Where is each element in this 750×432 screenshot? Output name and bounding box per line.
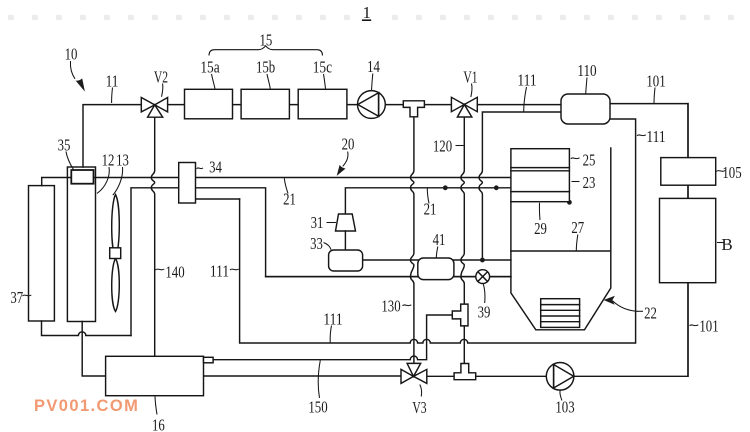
condenser 110 — [561, 94, 610, 124]
svg-text:15: 15 — [260, 31, 273, 50]
valve V3 — [401, 363, 427, 383]
evaporator stack 25/23 — [511, 149, 570, 202]
label 15a leader — [212, 74, 216, 89]
label 22 arrow — [613, 301, 638, 312]
ptc 31 trapezoid — [336, 214, 356, 231]
wire bottom pipe V3 to T2 — [427, 375, 454, 377]
label 111 top leader — [524, 87, 527, 112]
T fitting top — [403, 101, 424, 117]
node junction dot on heater supply — [480, 258, 485, 263]
heater core grille — [541, 299, 580, 328]
svg-text:111: 111 — [646, 127, 665, 146]
wire bottom pipe — [82, 322, 401, 377]
label 111 left tilde — [230, 269, 239, 270]
svg-text:110: 110 — [577, 61, 596, 80]
svg-text:120: 120 — [433, 137, 452, 156]
svg-text:130: 130 — [381, 297, 400, 316]
svg-text:10: 10 — [65, 45, 78, 64]
valve V2 — [141, 98, 167, 118]
wire pipe 33 to housing — [363, 259, 511, 261]
radiator 12 — [67, 167, 95, 322]
svg-text:33: 33 — [310, 234, 323, 253]
label 10 arrow — [70, 61, 75, 79]
heat exchanger 37 — [29, 186, 55, 321]
svg-text:103: 103 — [555, 398, 574, 417]
svg-text:20: 20 — [342, 135, 355, 154]
label 23 dash — [572, 181, 580, 183]
svg-text:34: 34 — [209, 158, 222, 177]
label 15c leader — [324, 74, 326, 89]
svg-text:27: 27 — [571, 218, 584, 237]
svg-text:15c: 15c — [313, 58, 333, 77]
svg-text:37: 37 — [10, 288, 23, 307]
label 27 leader — [576, 235, 578, 251]
svg-text:41: 41 — [433, 230, 446, 249]
label 111 right tilde — [637, 135, 646, 136]
wire bottom pipe pump 103 to 101 riser — [574, 104, 688, 377]
label 15 brace — [209, 46, 323, 56]
wire pipe lower left from fan line — [131, 188, 511, 336]
svg-text:21: 21 — [424, 200, 437, 219]
wire B to bottom pipe — [687, 283, 689, 377]
wire box34 port3 stub — [196, 198, 240, 200]
label 41 leader — [436, 247, 438, 258]
label 1 leader underline — [362, 19, 371, 21]
wire pipe 39 heater line — [266, 276, 511, 278]
label 11 leader — [111, 88, 114, 104]
label 140 tilde — [156, 269, 165, 270]
label 13 leader — [113, 167, 123, 195]
svg-text:29: 29 — [534, 219, 547, 238]
svg-text:39: 39 — [478, 303, 491, 322]
svg-text:31: 31 — [311, 213, 324, 232]
svg-text:15a: 15a — [200, 58, 220, 77]
label 12 leader — [97, 167, 109, 193]
svg-text:1: 1 — [363, 3, 372, 22]
hvac housing 22 — [511, 148, 611, 330]
svg-text:21: 21 — [283, 190, 296, 209]
wire pipe lower right segment to stack — [345, 188, 511, 214]
battery box B — [660, 198, 716, 282]
box 105 — [661, 158, 716, 186]
fan 13 blade upper — [112, 195, 120, 258]
label B dash — [717, 242, 724, 244]
label 39 leader — [483, 284, 485, 303]
label 31 dash — [327, 222, 337, 224]
pump 14 — [358, 91, 386, 119]
svg-text:150: 150 — [308, 397, 327, 416]
wire top pipe V2 to V1 — [168, 104, 452, 106]
label 29 leader — [538, 203, 541, 220]
svg-text:12: 12 — [102, 151, 115, 170]
label 37 tilde — [23, 295, 32, 296]
svg-text:111: 111 — [517, 71, 536, 90]
label 101 top leader — [654, 88, 655, 104]
chiller box 16 — [106, 356, 204, 395]
heater box 15b — [241, 89, 289, 119]
svg-text:23: 23 — [583, 173, 596, 192]
label 14 leader — [372, 74, 373, 91]
svg-text:111: 111 — [210, 262, 229, 281]
housing partition 27 — [511, 250, 611, 252]
label 21 upper leader — [284, 178, 288, 193]
wire 31 to 33 — [344, 231, 346, 250]
label 120 dash — [456, 145, 464, 147]
svg-text:16: 16 — [152, 416, 165, 432]
svg-text:11: 11 — [106, 72, 119, 91]
label 25 tilde — [571, 158, 580, 159]
label V1 leader — [471, 84, 472, 98]
svg-text:B: B — [721, 235, 732, 254]
node junction dot on lower pipe left — [443, 185, 448, 190]
svg-text:V2: V2 — [154, 68, 168, 87]
node junction dot on lower pipe right — [494, 185, 499, 190]
wire box34 port3 loop 111 — [240, 119, 636, 343]
pump 103 — [546, 363, 574, 391]
svg-text:101: 101 — [699, 317, 718, 336]
label 20 arrow — [343, 152, 348, 167]
T fitting bottom — [454, 364, 476, 380]
wire bottom pipe T2 to pump 103 — [476, 375, 547, 377]
label 35 leader — [66, 152, 74, 170]
wire radiator outlet manifold — [42, 321, 132, 336]
node junction dot at stack corner — [567, 200, 572, 205]
svg-text:111: 111 — [323, 310, 342, 329]
label V3 leader — [420, 385, 422, 397]
svg-text:101: 101 — [646, 72, 665, 91]
wire 111 housing top line — [479, 112, 561, 258]
component 41 — [418, 258, 454, 280]
wire V1 riser — [461, 117, 464, 373]
wire top pipe V1 to box 110 — [477, 104, 561, 106]
svg-text:15b: 15b — [256, 58, 275, 77]
reservoir 35 — [71, 170, 93, 184]
label 130 tilde — [403, 305, 412, 306]
svg-text:V3: V3 — [412, 398, 426, 417]
svg-text:105: 105 — [722, 163, 741, 182]
svg-text:140: 140 — [165, 263, 184, 282]
svg-text:25: 25 — [583, 151, 596, 170]
3-way box 34 — [179, 163, 196, 204]
label 34 tilde — [197, 168, 204, 169]
heater box 15c — [298, 89, 347, 119]
wire top pipe 11 — [83, 105, 141, 167]
wire T1 riser 130 — [411, 117, 414, 364]
wire pipe 150 — [213, 315, 452, 360]
wire 105 to B link — [687, 185, 689, 198]
label 111 bottom leader — [330, 326, 331, 343]
label 101 bottom tilde — [690, 325, 699, 326]
label 103 leader — [560, 391, 562, 401]
box 16 outlet tab — [204, 357, 214, 363]
valve 39 — [476, 270, 490, 284]
svg-text:22: 22 — [644, 304, 657, 323]
label 21 lower leader — [427, 189, 429, 204]
tank 33 — [329, 250, 363, 271]
svg-text:13: 13 — [116, 151, 129, 170]
label 16 leader — [155, 396, 157, 414]
valve V1 — [451, 97, 477, 117]
label 15b leader — [267, 74, 270, 89]
svg-text:14: 14 — [367, 57, 380, 76]
T fitting mid — [452, 304, 468, 326]
svg-text:V1: V1 — [463, 68, 477, 87]
label 110 leader — [586, 78, 587, 94]
wire pipe 21 upper — [42, 178, 511, 186]
svg-text:35: 35 — [58, 136, 71, 155]
svg-text:PV001.COM: PV001.COM — [34, 397, 139, 415]
fan 13 hub — [110, 248, 121, 259]
label 150 leader — [318, 360, 320, 398]
heater box 15a — [185, 89, 233, 119]
fan 13 blade lower — [112, 259, 120, 312]
wire V2 riser — [151, 117, 154, 356]
label 105 tilde — [717, 171, 726, 172]
label V2 leader — [162, 84, 163, 97]
label 33 leader — [324, 243, 332, 250]
wire 101 riser to 105 — [687, 104, 689, 158]
